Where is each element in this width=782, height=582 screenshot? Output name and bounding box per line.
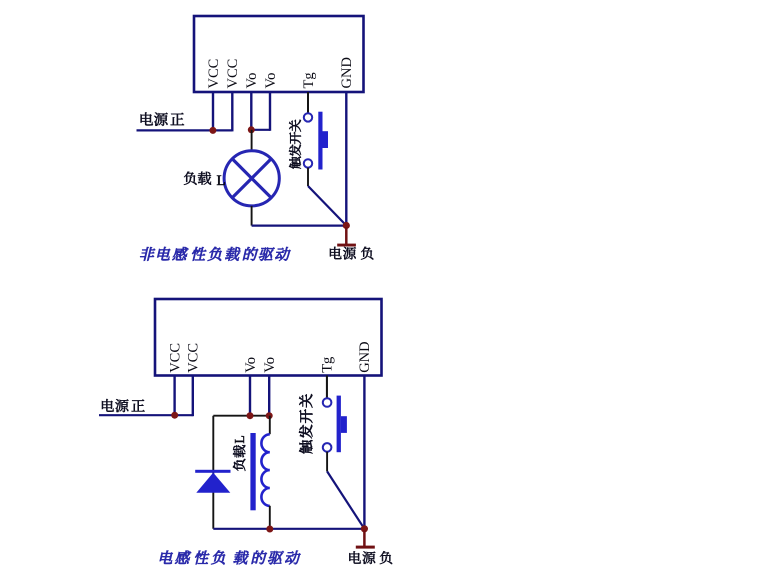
svg-text:GND: GND <box>339 57 355 88</box>
diode D1 anode triangle <box>196 473 230 493</box>
junction node ground (top) <box>343 222 350 229</box>
label power negative (top) <box>330 247 373 260</box>
label power positive (top) <box>141 112 184 125</box>
label trigger switch (bottom, vertical) <box>299 394 312 453</box>
wire: coil bottom lead <box>269 506 271 529</box>
svg-text:Vo: Vo <box>263 73 279 89</box>
switch S1 button actuator <box>318 112 322 170</box>
switch S2 button actuator <box>337 396 341 453</box>
wire: lamp top lead <box>251 130 253 151</box>
junction node on Vo pin3 (top) <box>248 126 255 133</box>
junction node on VCC pin1 (bottom) <box>171 412 178 419</box>
U2 pin 6 GND wire <box>363 376 365 529</box>
wire: switch lower lead (bottom) <box>326 452 328 472</box>
caption: drive of inductive load <box>159 551 301 565</box>
U2 pin labels VCC VCC Vo Vo Tg GND <box>167 341 373 372</box>
junction node coil bottom <box>266 526 273 533</box>
caption: drive of non-inductive load <box>139 247 291 261</box>
svg-text:Tg: Tg <box>320 357 336 373</box>
supply negative terminal stem (bottom) <box>363 530 366 546</box>
wire: coil top lead <box>269 416 271 435</box>
svg-text:Vo: Vo <box>244 73 260 89</box>
lamp EL1 (load L) circle <box>224 151 279 206</box>
junction node Vo pin3 (bottom) <box>247 412 254 419</box>
svg-text:VCC: VCC <box>167 343 183 373</box>
inductor core bar <box>250 433 255 510</box>
switch S2 terminal circle lower <box>323 443 332 452</box>
lamp EL1 X cross <box>232 159 271 198</box>
U1 pin 5 Tg stub <box>307 92 309 114</box>
svg-text:VCC: VCC <box>186 343 202 373</box>
U1 pin 2 VCC stub <box>231 92 233 131</box>
label power negative (bottom) <box>349 551 392 564</box>
U1 pin 1 VCC stub <box>212 92 214 130</box>
switch S1 terminal circle lower <box>304 159 312 167</box>
U1 pin 4 Vo stub <box>269 92 271 131</box>
wire: load branch top rail <box>213 415 269 417</box>
U1 pin labels VCC VCC Vo Vo Tg GND <box>206 57 355 88</box>
svg-text:VCC: VCC <box>206 59 222 89</box>
label trigger switch (top, vertical) <box>289 120 301 169</box>
svg-text:L: L <box>217 173 226 189</box>
svg-text:Tg: Tg <box>301 72 317 88</box>
supply negative terminal bar (bottom) <box>356 546 375 549</box>
supply negative terminal stem (top) <box>345 227 348 244</box>
U2 pin 2 VCC stub <box>192 376 194 417</box>
wire: supply positive rail bottom <box>99 414 193 416</box>
wire: Vo-Vo bridge (top) <box>251 129 270 131</box>
wire: bottom rail (bottom circuit) <box>213 528 364 530</box>
svg-text:Vo: Vo <box>243 357 259 373</box>
label load L (bottom, vertical) <box>232 435 247 471</box>
wire: diagonal switch to ground node (bottom) <box>327 471 364 528</box>
label power positive (bottom) <box>102 399 145 412</box>
module U2 box <box>155 299 382 376</box>
junction node Vo pin4 / coil top (bottom) <box>266 412 273 419</box>
junction node ground (bottom) <box>361 525 368 532</box>
svg-text:Vo: Vo <box>262 357 278 373</box>
switch S2 terminal circle upper <box>323 398 332 407</box>
U2 pin 5 Tg stub <box>326 376 328 399</box>
svg-text:GND: GND <box>357 341 373 372</box>
wire: diode branch vertical <box>212 416 214 529</box>
junction node on VCC pin1 (top) <box>209 127 216 134</box>
U2 pin 3 Vo stub <box>249 376 251 416</box>
wire: bottom rail to ground node (top circuit) <box>252 225 347 227</box>
U1 pin 6 GND wire <box>345 92 347 226</box>
label load L (top) <box>184 172 226 190</box>
U1 pin 3 Vo stub <box>250 92 252 130</box>
wire: diagonal switch to ground node (top) <box>308 186 346 226</box>
wire: supply positive rail top <box>137 129 233 131</box>
supply negative terminal bar (top) <box>337 244 356 247</box>
wire: Tg to switch terminal (bottom) <box>326 376 328 399</box>
svg-text:VCC: VCC <box>225 59 241 89</box>
inductor L1 coil arcs <box>261 434 269 506</box>
wire: switch lower lead (top) <box>307 168 309 186</box>
diode D1 cathode bar <box>195 470 230 473</box>
module U1 box <box>194 16 364 92</box>
U2 pin 1 VCC stub <box>173 376 175 416</box>
svg-text:L: L <box>232 435 247 443</box>
wire: Tg to switch terminal (top) <box>307 92 309 113</box>
switch S1 terminal circle upper <box>304 113 312 121</box>
U2 pin 4 Vo stub <box>268 376 270 416</box>
wire: lamp bottom lead <box>251 206 253 226</box>
